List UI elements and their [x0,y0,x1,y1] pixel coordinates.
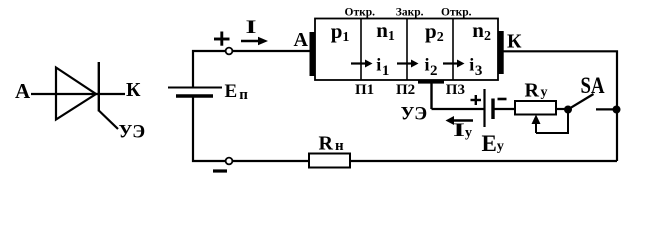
wire from Ey to Ry [493,108,515,110]
wire from battery bottom to bottom rail [193,98,229,162]
current i3 arrow [443,60,465,68]
rheostat wiper return wire [536,110,568,133]
wire from battery top to top rail [193,51,229,87]
svg-text:УЭ: УЭ [119,122,146,143]
load resistor Rn body [309,154,350,168]
terminal circle (top, +) [226,48,233,55]
plus sign at positive terminal [214,32,230,46]
svg-text:Откр.: Откр. [345,7,376,19]
battery Ey long positive plate [483,89,485,127]
battery Ep long positive plate [168,87,222,89]
bottom rail wire [229,160,617,162]
minus sign at negative terminal [213,169,227,172]
cathode bar of symbol [98,62,100,111]
top rail wire from terminal to anode electrode [229,50,310,52]
battery Ey short negative plate [491,99,494,120]
rheostat wiper arrow [532,115,541,134]
anode electrode bar [310,32,316,76]
wire from Ry to switch [556,108,568,110]
minus sign at Ey [498,98,507,101]
junction node at switch left [564,106,572,114]
cathode electrode bar [498,31,503,74]
current i2 arrow [397,60,419,68]
svg-text:П1: П1 [355,82,374,98]
svg-text:А: А [294,29,309,51]
four-layer structure body [315,19,498,81]
wire from switch to right rail [596,108,617,110]
svg-text:I: I [246,17,257,38]
battery Ep (supply) [168,32,248,172]
junction node at right rail [613,106,621,114]
svg-text:УЭ: УЭ [401,104,428,125]
svg-text:Откр.: Откр. [441,7,472,19]
top rail wire from cathode to right rail [504,51,618,161]
svg-text:К: К [507,31,522,53]
gate electrode bar under p2 [418,80,444,84]
svg-text:П2: П2 [396,82,415,98]
gate wire down from electrode [430,83,432,109]
resistor Ry (rheostat) body [515,101,556,115]
battery Ep short negative plate [176,94,213,98]
wire anode-cathode through symbol [31,93,125,95]
current I arrow [241,37,268,45]
thyristor symbol VS (left) [15,62,145,143]
gate horizontal wire to battery Ey [432,108,484,110]
gate lead of symbol [99,111,118,130]
svg-text:А: А [15,79,31,103]
svg-text:SA: SA [581,73,605,98]
svg-text:К: К [126,79,141,101]
thyristor triangle [56,68,96,120]
svg-text:П3: П3 [446,82,465,98]
plus sign at Ey [471,95,482,105]
current i1 arrow [351,60,373,68]
junction P1 divider [360,19,362,81]
terminal circle (bottom, -) [226,158,233,165]
current Iy arrow [446,116,474,125]
junction P3 divider [452,19,454,81]
switch SA blade [569,94,594,109]
junction P2 divider [406,19,408,81]
svg-text:Закр.: Закр. [396,7,424,19]
